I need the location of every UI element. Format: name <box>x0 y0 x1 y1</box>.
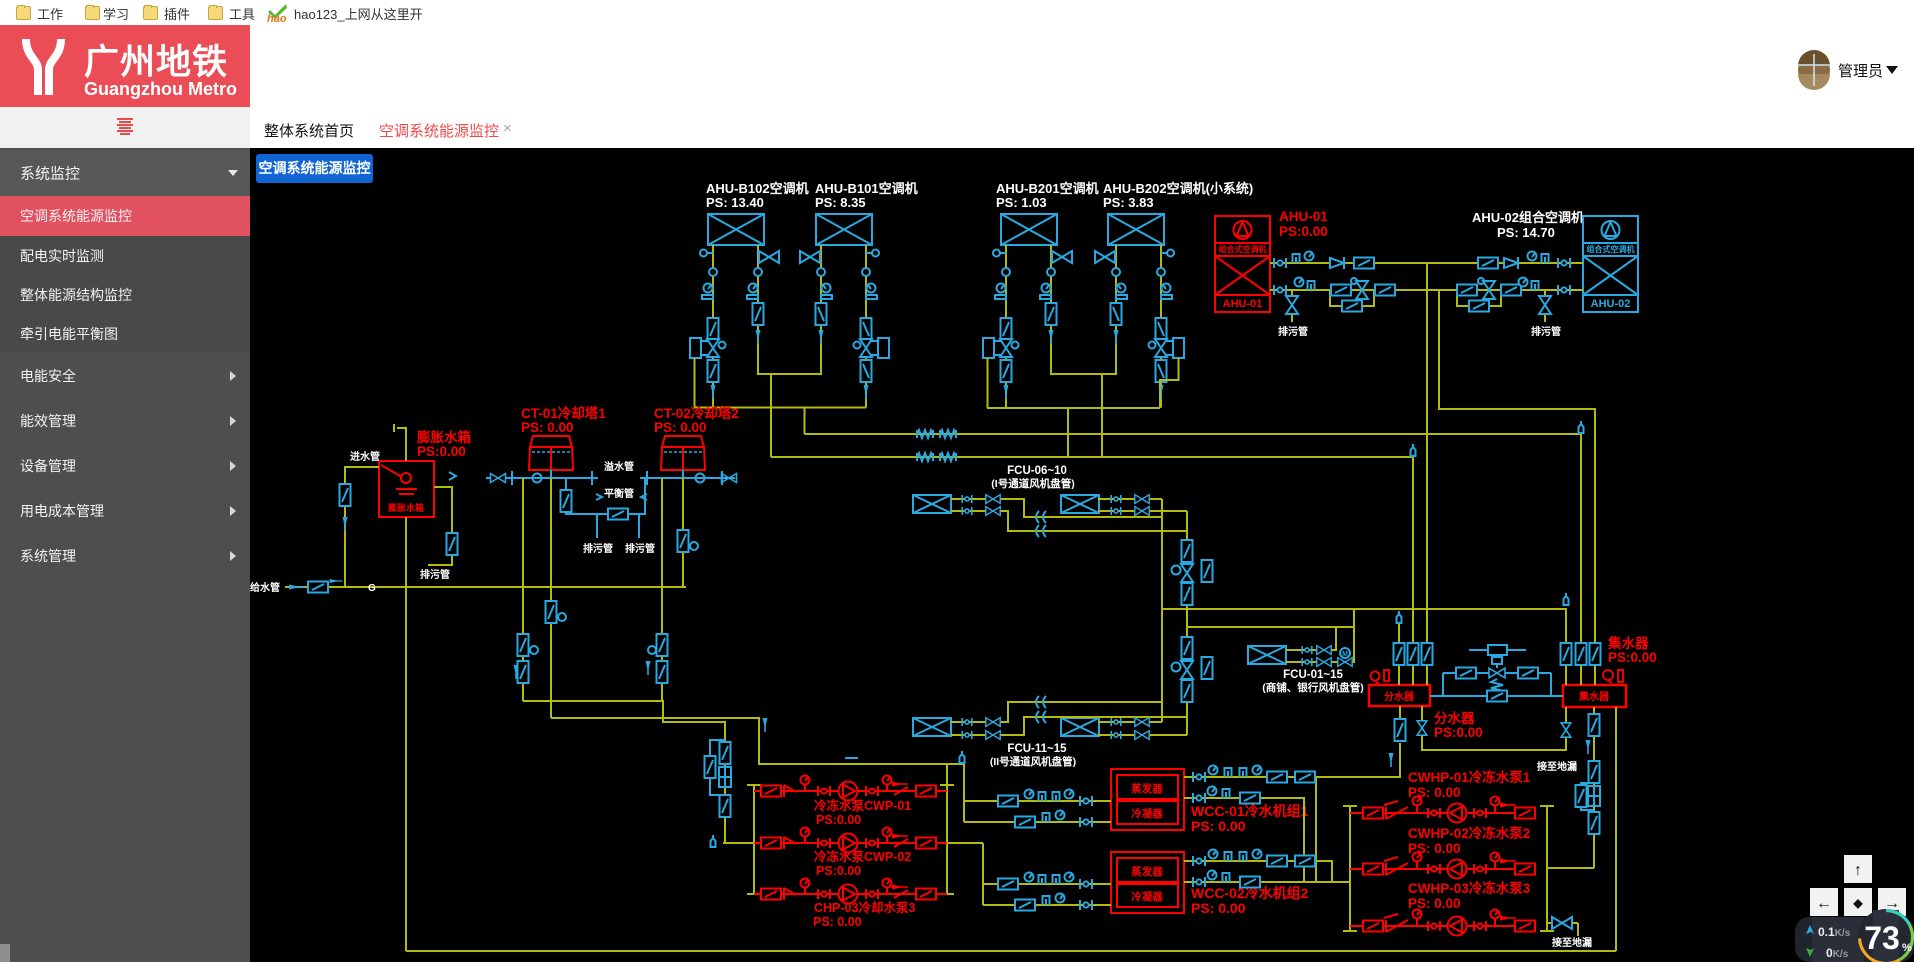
svg-text:PS: 8.35: PS: 8.35 <box>815 195 866 210</box>
svg-text:AHU-B202空调机(小系统): AHU-B202空调机(小系统) <box>1103 181 1253 196</box>
svg-text:接至地漏: 接至地漏 <box>1537 760 1577 773</box>
svg-text:G: G <box>368 583 376 594</box>
tank inlet pipe 进水管 <box>345 467 379 587</box>
svg-text:AHU-02: AHU-02 <box>1591 298 1631 310</box>
svg-text:PS:0.00: PS:0.00 <box>816 813 861 827</box>
AHU-B102 branch valves <box>690 250 779 400</box>
svg-text:AHU-B101空调机: AHU-B101空调机 <box>815 181 918 196</box>
U pipe pair B201-B202 <box>1051 370 1116 374</box>
svg-text:接至地漏: 接至地漏 <box>1552 936 1592 949</box>
main supply line B <box>805 434 1582 646</box>
svg-text:WCC-01冷水机组1: WCC-01冷水机组1 <box>1191 803 1309 819</box>
svg-text:PS: 14.70: PS: 14.70 <box>1497 225 1555 240</box>
FCU coil upper-right <box>1061 495 1099 513</box>
svg-text:FCU-01~15: FCU-01~15 <box>1283 669 1343 681</box>
svg-text:PS: 0.00: PS: 0.00 <box>654 420 707 435</box>
flex connectors on lines B and C <box>917 421 1584 461</box>
bypass loop right <box>1457 290 1501 306</box>
FCU coil lower-left <box>913 718 951 736</box>
trunk riser from supply line <box>1426 263 1428 646</box>
AHU-B102 branch pipes <box>713 245 758 408</box>
supply pipe AHU-01 to AHU-02 y263 <box>1270 263 1595 646</box>
chiller evaporator piping right <box>1184 744 1400 777</box>
valves on AHU-01/02 pipes <box>1274 252 1570 315</box>
AHU-B101 branch pipes <box>821 245 866 408</box>
tower riser pipes <box>523 478 964 843</box>
svg-text:0.1K/s: 0.1K/s <box>1818 925 1851 939</box>
pressure bypass assembly between headers <box>1430 645 1563 702</box>
svg-text:AHU-01: AHU-01 <box>1223 298 1263 310</box>
jog A2 to line C <box>1067 408 1069 457</box>
svg-text:(商铺、银行风机盘管): (商铺、银行风机盘管) <box>1262 681 1364 694</box>
svg-text:管理员: 管理员 <box>1838 63 1883 80</box>
svg-text:↑: ↑ <box>1854 862 1862 879</box>
svg-text:←: ← <box>1816 895 1832 912</box>
collector outlet to bottom main <box>1615 707 1617 951</box>
inlet valves above 分水器 <box>1399 664 1595 685</box>
svg-text:组合式空调机: 组合式空调机 <box>1219 244 1267 254</box>
svg-text:排污管: 排污管 <box>1278 325 1308 338</box>
tower manifolds blue <box>486 470 737 538</box>
svg-text:PS: 0.00: PS: 0.00 <box>813 915 862 929</box>
svg-text:排污管: 排污管 <box>1531 325 1561 338</box>
AHU-B202 branch valves <box>1095 250 1184 400</box>
svg-text:膨胀水箱: 膨胀水箱 <box>387 502 424 513</box>
header line A2 <box>987 407 1160 409</box>
FCU valve sets <box>962 495 1568 740</box>
svg-text:PS:0.00: PS:0.00 <box>1608 650 1657 665</box>
CWP pump headers <box>723 764 954 894</box>
inlet valves above 集水器 <box>1561 643 1572 665</box>
water collector 集水器 <box>1563 685 1626 707</box>
chiller WCC-01 <box>1111 769 1184 830</box>
svg-text:PS: 0.00: PS: 0.00 <box>1191 900 1246 916</box>
chiller valve chains <box>998 766 1315 911</box>
pump CHP-03冷却水泵3 <box>754 879 947 904</box>
chiller condenser piping left <box>947 744 1400 905</box>
tab bar <box>250 107 1914 148</box>
svg-text:PS:0.00: PS:0.00 <box>417 444 466 459</box>
blue page title button <box>256 154 373 183</box>
svg-text:PS: 3.83: PS: 3.83 <box>1103 195 1154 210</box>
valves on tower risers <box>514 530 965 847</box>
pump 冷冻水泵CWP-02 <box>754 828 947 853</box>
svg-text:FCU-11~15: FCU-11~15 <box>1007 743 1067 755</box>
FCU collector risers <box>1161 499 1163 722</box>
cooling tower CT-02 <box>661 436 705 470</box>
svg-text:膨胀水箱: 膨胀水箱 <box>417 429 471 445</box>
bottom main pipe <box>406 950 1616 952</box>
AHU-B201 unit coil <box>1001 214 1057 245</box>
drain stub left 排污管 <box>1291 290 1293 322</box>
svg-text:冷冻水泵CWP-02: 冷冻水泵CWP-02 <box>814 849 911 864</box>
svg-text:AHU-B102空调机: AHU-B102空调机 <box>706 181 809 196</box>
svg-text:PS:0.00: PS:0.00 <box>1434 725 1483 740</box>
svg-text:CT-01冷却塔1: CT-01冷却塔1 <box>521 405 606 421</box>
svg-text:0K/s: 0K/s <box>1826 946 1849 960</box>
upper valve cluster <box>1182 540 1193 562</box>
tower supply header to pumps <box>523 701 725 843</box>
metro logo <box>26 39 61 95</box>
svg-text:(I号通道风机盘管): (I号通道风机盘管) <box>991 477 1074 490</box>
avatar <box>1798 54 1830 86</box>
distribution line to 集水器 <box>1162 609 1566 646</box>
bypass loop left <box>1330 290 1374 306</box>
svg-text:排污管: 排污管 <box>583 542 613 555</box>
AHU-01 combined AHU unit <box>1215 216 1270 312</box>
svg-text:冷冻水泵CWP-01: 冷冻水泵CWP-01 <box>814 798 911 813</box>
AHU-B101 unit coil <box>816 214 872 245</box>
svg-text:CT-02冷却塔2: CT-02冷却塔2 <box>654 405 739 421</box>
svg-text:%: % <box>1902 942 1912 954</box>
svg-text:蒸发器: 蒸发器 <box>1131 865 1163 878</box>
return line to 分水器 <box>1187 626 1354 628</box>
svg-text:CHP-03冷却水泵3: CHP-03冷却水泵3 <box>814 900 915 915</box>
svg-text:溢水管: 溢水管 <box>604 460 634 473</box>
net speed panel <box>1795 917 1914 962</box>
drain stub right 排污管 <box>1544 290 1546 322</box>
svg-text:进水管: 进水管 <box>350 450 380 463</box>
lower valve cluster <box>1182 637 1193 659</box>
tank outlet right pipe <box>428 487 452 565</box>
tank riser to bottom main <box>405 517 407 951</box>
main return line C <box>771 456 1413 458</box>
bottom connections of headers <box>406 706 1616 951</box>
svg-text:集水器: 集水器 <box>1578 690 1610 703</box>
svg-text:平衡管: 平衡管 <box>604 487 634 500</box>
navigation pad <box>1795 855 1914 962</box>
svg-text:◆: ◆ <box>1852 896 1863 910</box>
return pipe AHU-01 to AHU-02 y290 <box>1270 289 1583 291</box>
svg-text:分水器: 分水器 <box>1384 690 1415 703</box>
jog A1 to line B <box>804 408 806 435</box>
svg-text:PS:0.00: PS:0.00 <box>1279 224 1328 239</box>
svg-text:(II号通道风机盘管): (II号通道风机盘管) <box>990 755 1076 768</box>
valves on tank pipes <box>340 472 458 555</box>
AHU-B201 branch valves <box>983 250 1072 400</box>
FCU coil lower-right <box>1061 718 1099 736</box>
svg-text:PS: 1.03: PS: 1.03 <box>996 195 1047 210</box>
bookmarks bar <box>0 0 1914 26</box>
feed water main 给水管 <box>285 586 686 588</box>
svg-text:PS: 0.00: PS: 0.00 <box>1191 818 1246 834</box>
svg-text:CWHP-02冷冻水泵2: CWHP-02冷冻水泵2 <box>1408 825 1530 841</box>
svg-text:73: 73 <box>1864 920 1900 956</box>
AHU-B202 branch pipes <box>1116 245 1161 408</box>
CWHP pump headers <box>1343 806 1594 936</box>
svg-text:PS: 0.00: PS: 0.00 <box>521 420 574 435</box>
blue drain valve 接至地漏 <box>1552 917 1572 929</box>
filter assembly before pumps <box>720 742 731 764</box>
hamburger icon strip <box>0 107 250 148</box>
U pipe pair B102-B101 <box>694 358 1581 646</box>
chiller WCC-02 <box>1111 852 1184 913</box>
svg-text:组合式空调机: 组合式空调机 <box>1587 244 1635 254</box>
svg-text:PS:0.00: PS:0.00 <box>816 864 861 878</box>
header line A1 <box>694 407 866 409</box>
svg-text:PS: 13.40: PS: 13.40 <box>706 195 764 210</box>
svg-text:排污管: 排污管 <box>625 542 655 555</box>
svg-text:CWHP-03冷冻水泵3: CWHP-03冷冻水泵3 <box>1408 880 1531 896</box>
brand block <box>0 25 250 107</box>
svg-text:冷凝器: 冷凝器 <box>1131 890 1163 903</box>
svg-text:分水器: 分水器 <box>1434 710 1475 726</box>
svg-text:hao: hao <box>267 13 287 23</box>
FCU shops piping <box>1286 627 1336 650</box>
FCU coil shops <box>1248 646 1286 664</box>
percent gauge <box>1858 909 1914 962</box>
svg-text:蒸发器: 蒸发器 <box>1131 782 1163 795</box>
svg-text:AHU-02组合空调机: AHU-02组合空调机 <box>1472 210 1584 225</box>
AHU-B102 unit coil <box>708 214 764 245</box>
svg-text:FCU-06~10: FCU-06~10 <box>1007 465 1067 477</box>
svg-text:广州地铁: 广州地铁 <box>84 43 228 82</box>
AHU-B201 branch pipes <box>1006 245 1051 408</box>
svg-text:冷凝器: 冷凝器 <box>1131 807 1163 820</box>
AHU-B202 unit coil <box>1108 214 1164 245</box>
water distributor 分水器 <box>1369 685 1430 706</box>
FCU piping upper group <box>951 499 1566 735</box>
tank top vent stub <box>394 424 406 461</box>
pump 冷冻水泵CWP-01 <box>754 776 947 801</box>
AHU-B101 branch valves <box>800 250 889 400</box>
svg-text:集水器: 集水器 <box>1607 635 1649 651</box>
expansion tank 膨胀水箱 <box>379 461 434 517</box>
svg-text:M: M <box>1342 651 1348 658</box>
red gauges on headers <box>1371 670 1624 684</box>
FCU piping lower group <box>951 702 1162 722</box>
balance pipe assembly 平衡管 <box>596 494 602 500</box>
top header with admin <box>250 25 1914 107</box>
AHU-02 combined AHU unit <box>1583 216 1638 312</box>
svg-text:CWHP-01冷冻水泵1: CWHP-01冷冻水泵1 <box>1408 769 1531 785</box>
cooling tower CT-01 <box>529 436 573 470</box>
svg-text:Guangzhou Metro: Guangzhou Metro <box>84 79 237 99</box>
trunk riser from return line <box>1439 290 1595 646</box>
svg-text:AHU-B201空调机: AHU-B201空调机 <box>996 181 1099 196</box>
svg-text:AHU-01: AHU-01 <box>1279 209 1328 224</box>
svg-text:排污管: 排污管 <box>420 568 450 581</box>
FCU coil upper-left <box>913 495 951 513</box>
sidebar menu <box>0 148 250 962</box>
svg-text:给水管: 给水管 <box>250 581 280 594</box>
strainer stack under 集水器 <box>1589 714 1600 736</box>
